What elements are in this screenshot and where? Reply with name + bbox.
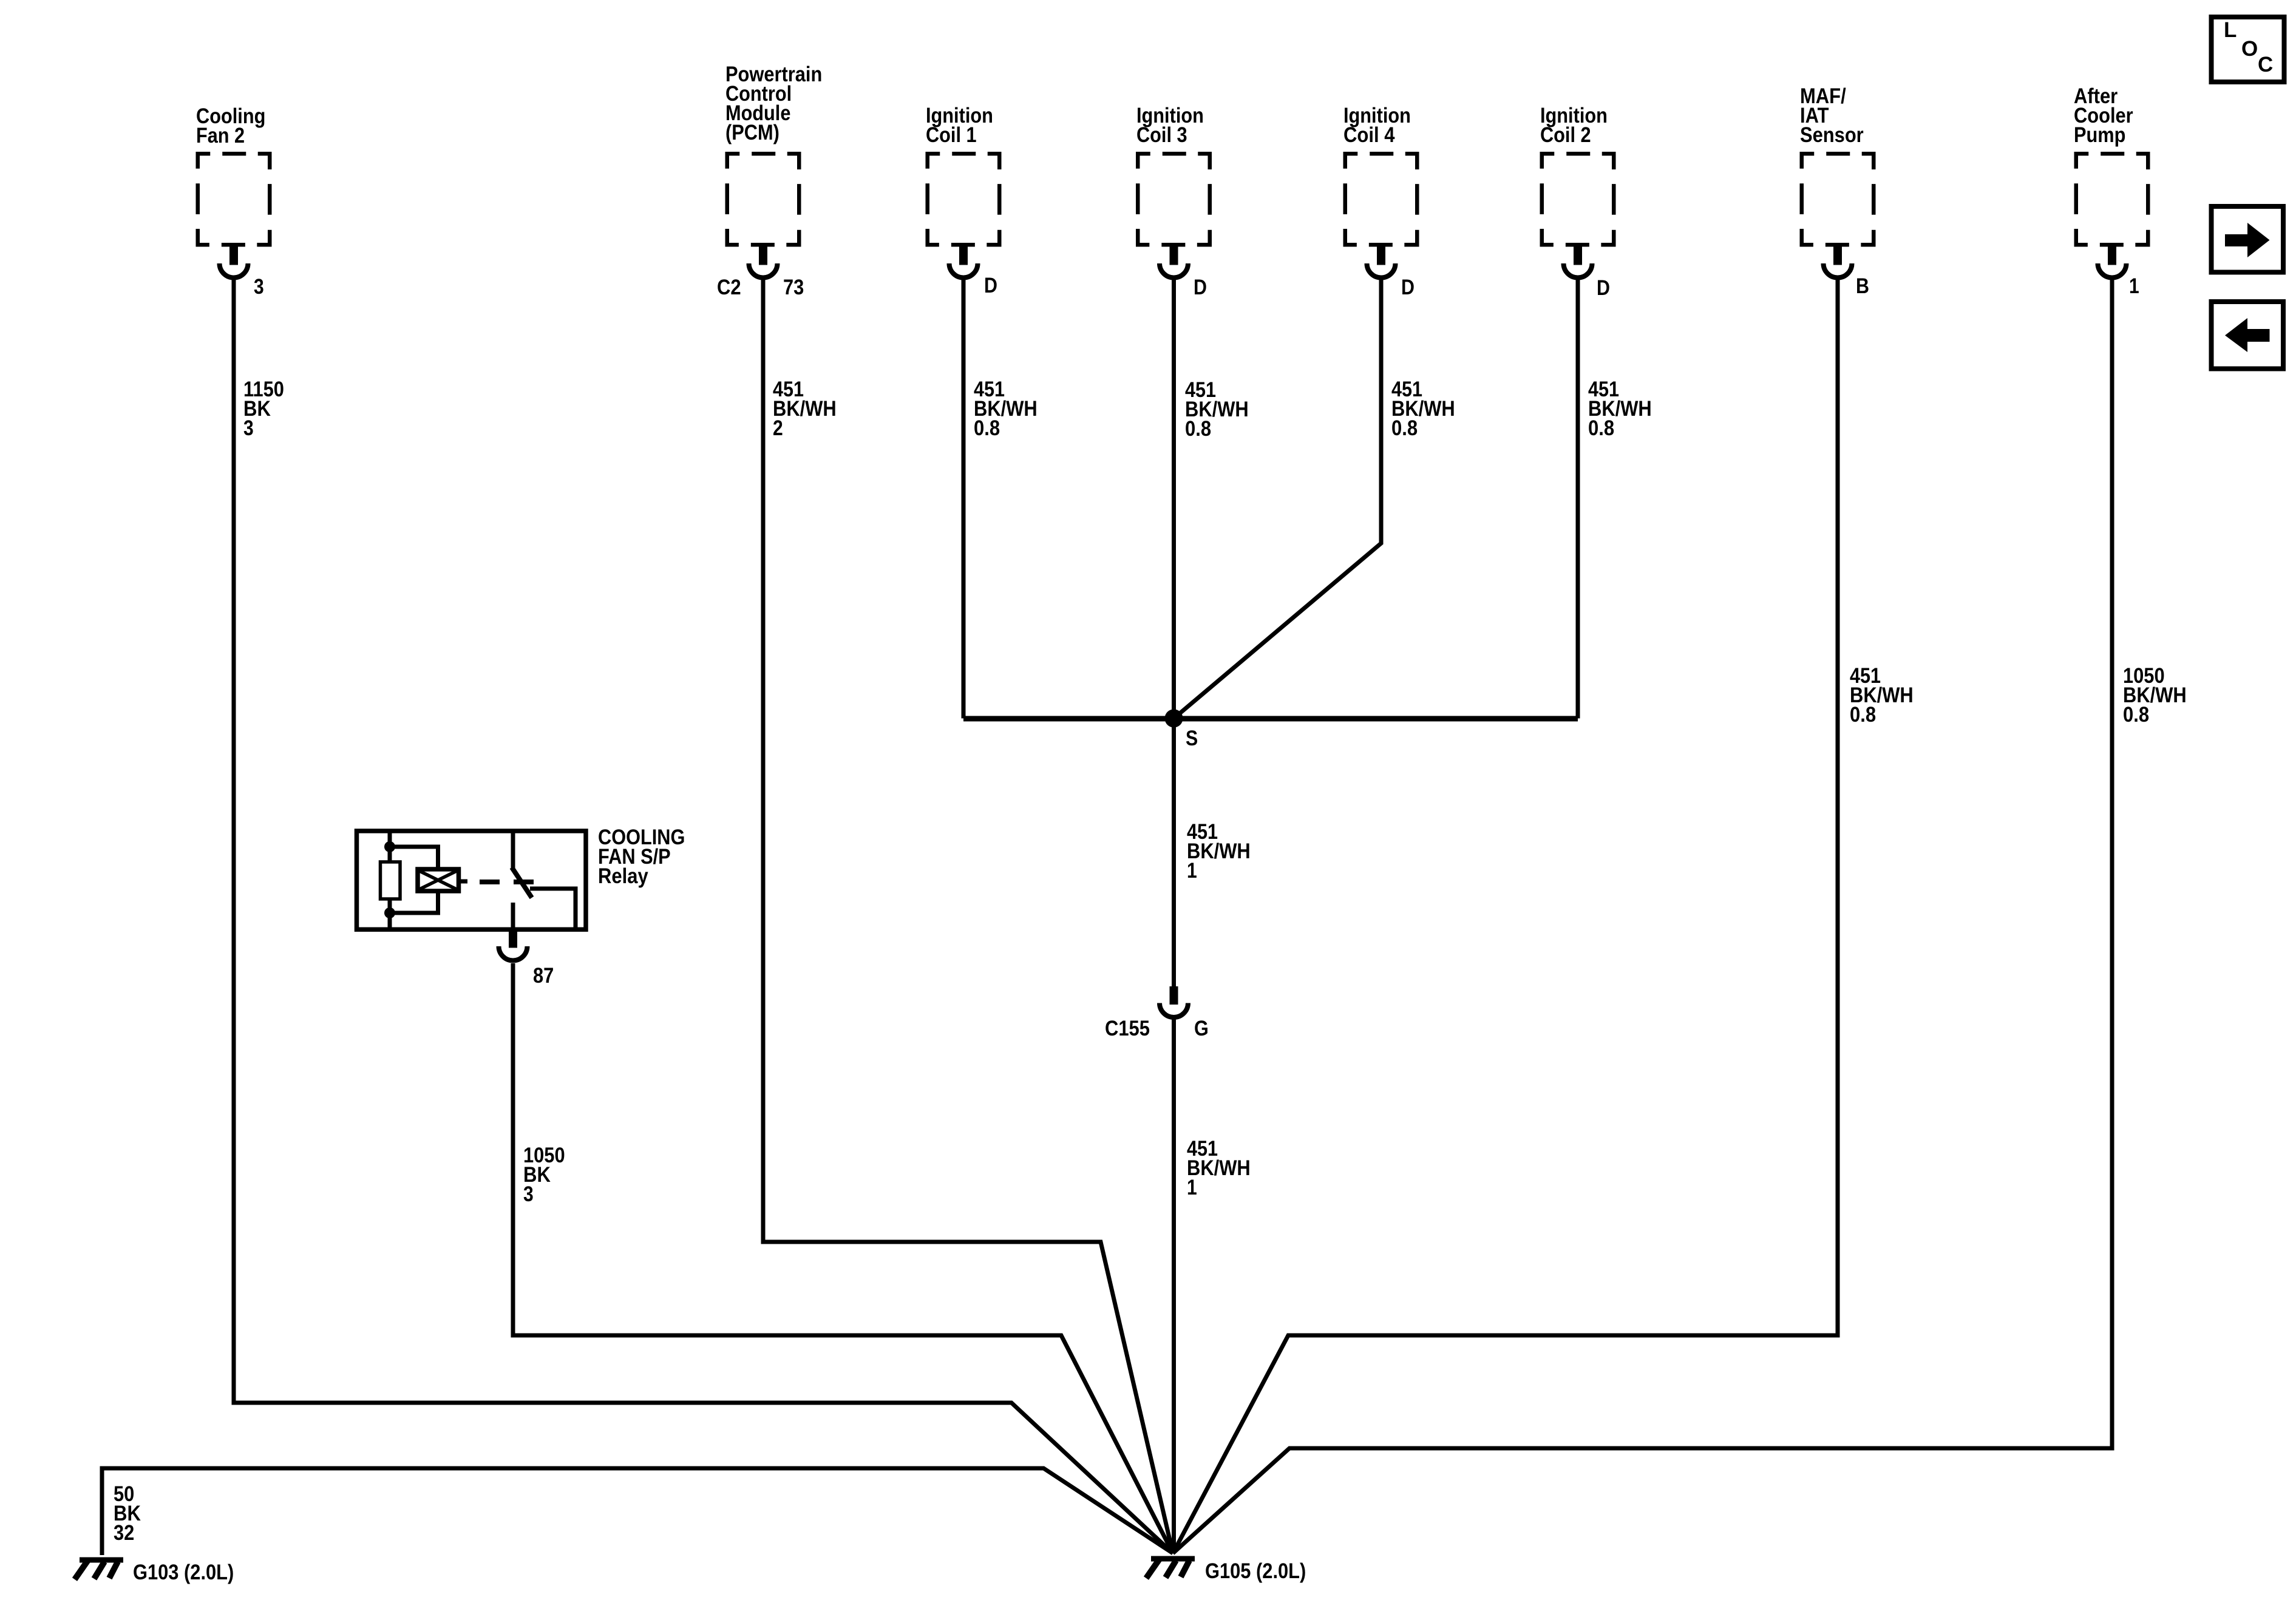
relay switch common stub: [511, 831, 515, 869]
relay pin 87 stub inside box: [511, 903, 515, 929]
component After Cooler Pump label: [2074, 84, 2133, 147]
ground G103 symbol: [75, 1559, 123, 1579]
pin B of MAF/IAT Sensor: [1856, 274, 1869, 298]
svg-text:0.8: 0.8: [974, 416, 1000, 440]
pin D of Ignition Coil 1: [984, 274, 997, 297]
component Powertrain Control Module (PCM) label: [725, 63, 822, 144]
right arrow navigation box: [2212, 206, 2284, 273]
component After Cooler Pump box: [2076, 154, 2148, 277]
svg-text:C155: C155: [1105, 1017, 1150, 1040]
svg-text:0.8: 0.8: [1185, 417, 1211, 441]
relay junction dot bottom: [384, 907, 395, 918]
label wire 451 BK/WH 2: [773, 378, 837, 440]
svg-text:1: 1: [1187, 1176, 1197, 1199]
wire 50 BK from G103 to G105: [102, 1468, 1173, 1555]
wire 451 BK/WH from Ignition Coil 4 to node S: [1174, 279, 1382, 719]
svg-text:0.8: 0.8: [1588, 416, 1614, 440]
label wire 451 BK/WH 0.8 MAF: [1850, 664, 1914, 727]
svg-text:73: 73: [783, 276, 804, 299]
pin D of Ignition Coil 3: [1194, 276, 1207, 299]
relay switch contact wire to bottom: [530, 889, 576, 929]
relay coil box with X: [418, 869, 459, 891]
svg-text:D: D: [1194, 276, 1207, 299]
component Ignition Coil 3 label: [1136, 104, 1204, 147]
svg-text:0.8: 0.8: [2123, 703, 2149, 727]
wire 1050 BK/WH from After Cooler Pump to G105: [1173, 279, 2112, 1553]
svg-text:Coil 3: Coil 3: [1136, 123, 1187, 147]
component Cooling Fan 2 label: [196, 104, 265, 147]
svg-text:1: 1: [1187, 859, 1197, 883]
wire splice bus between ignition coils: [963, 716, 1578, 722]
label wire 451 BK/WH 0.8 coil 3: [1185, 378, 1249, 441]
svg-text:3: 3: [523, 1182, 534, 1206]
svg-text:G105 (2.0L): G105 (2.0L): [1205, 1559, 1306, 1583]
pin 1 of After Cooler Pump: [2129, 274, 2139, 298]
svg-text:Coil 4: Coil 4: [1343, 123, 1395, 147]
component Ignition Coil 3 box: [1138, 154, 1210, 277]
wire 1050 BK from relay to G105: [513, 963, 1173, 1553]
component Ignition Coil 4 box: [1345, 154, 1418, 277]
svg-text:G103 (2.0L): G103 (2.0L): [133, 1561, 234, 1584]
relay switch blade: [512, 867, 532, 898]
svg-text:C2: C2: [717, 276, 741, 299]
component Ignition Coil 2 box: [1542, 154, 1614, 277]
pin 3 of Cooling Fan 2: [254, 275, 264, 299]
wire 451 BK/WH from PCM to G105: [763, 279, 1173, 1553]
label wire 451 BK/WH 1 above C155: [1187, 820, 1251, 883]
resistor inside relay: [381, 862, 401, 899]
svg-text:0.8: 0.8: [1391, 416, 1418, 440]
svg-text:(PCM): (PCM): [725, 121, 779, 144]
svg-text:Coil 1: Coil 1: [926, 123, 977, 147]
svg-text:Sensor: Sensor: [1800, 123, 1864, 147]
svg-text:3: 3: [254, 275, 264, 299]
component MAF/IAT Sensor box: [1802, 154, 1874, 277]
svg-text:32: 32: [114, 1521, 134, 1545]
svg-text:S: S: [1186, 727, 1198, 750]
svg-text:L: L: [2224, 18, 2237, 42]
label wire 451 BK/WH 0.8 coil 2: [1588, 378, 1652, 440]
svg-text:O: O: [2241, 37, 2258, 61]
wire 451 BK/WH from Ignition Coil 3 to C155: [1172, 279, 1176, 986]
component MAF/IAT Sensor label: [1800, 84, 1864, 147]
relay label COOLING FAN S/P Relay: [598, 825, 685, 888]
connector C155 name: [1105, 1017, 1150, 1040]
pin 73 of PCM: [783, 276, 804, 299]
svg-text:D: D: [1401, 276, 1415, 299]
component Ignition Coil 1 label: [926, 104, 993, 147]
pin C2 of PCM: [717, 276, 741, 299]
relay internal wire left vertical: [388, 831, 392, 862]
relay wire from bottom dot to coil: [390, 891, 438, 913]
relay COOLING FAN S/P outer box: [357, 831, 586, 929]
svg-text:3: 3: [243, 416, 254, 440]
relay internal wire below resistor: [388, 899, 392, 929]
component Ignition Coil 2 label: [1540, 104, 1608, 147]
svg-text:D: D: [984, 274, 997, 297]
relay pin 87 connector: [499, 930, 528, 961]
svg-text:G: G: [1194, 1017, 1209, 1040]
label wire 50 BK 32: [114, 1482, 141, 1545]
label wire 451 BK/WH 0.8 coil 1: [974, 378, 1038, 440]
node S label: [1186, 727, 1198, 750]
svg-text:1: 1: [2129, 274, 2139, 298]
ground G103 label: [133, 1561, 234, 1584]
pin G of C155: [1194, 1017, 1209, 1040]
LOC legend box: [2212, 17, 2284, 82]
svg-text:C: C: [2258, 53, 2273, 76]
connector C155 symbol: [1160, 986, 1188, 1017]
wire 451 BK/WH from Ignition Coil 2 to node S bus: [1576, 279, 1580, 719]
label wire 1150 BK 3: [243, 378, 284, 440]
wire 451 BK/WH from Ignition Coil 1 to node S bus: [962, 279, 966, 719]
node S junction dot: [1165, 710, 1183, 728]
ground G105 symbol: [1146, 1558, 1195, 1578]
ground G105 label: [1205, 1559, 1306, 1583]
wire 1150 BK from Cooling Fan 2 to G105: [234, 279, 1173, 1553]
svg-text:D: D: [1597, 276, 1610, 300]
svg-text:87: 87: [533, 964, 554, 988]
label wire 451 BK/WH 0.8 coil 4: [1391, 378, 1455, 440]
wire 451 BK/WH from MAF/IAT Sensor to G105: [1173, 279, 1838, 1553]
component PCM box: [727, 154, 800, 277]
left arrow navigation box: [2212, 302, 2284, 369]
label wire 1050 BK 3: [523, 1144, 565, 1206]
label wire 451 BK/WH 1 below C155: [1187, 1137, 1251, 1199]
relay coil right stub: [459, 880, 468, 884]
svg-text:Fan 2: Fan 2: [196, 124, 245, 147]
pin 87 label: [533, 964, 554, 988]
svg-text:Pump: Pump: [2074, 123, 2125, 147]
relay junction dot top: [384, 841, 395, 852]
label wire 1050 BK/WH 0.8: [2123, 664, 2187, 727]
pin D of Ignition Coil 4: [1401, 276, 1415, 299]
svg-text:Coil 2: Coil 2: [1540, 123, 1591, 147]
svg-text:B: B: [1856, 274, 1869, 298]
component Cooling Fan 2 box: [198, 154, 270, 277]
wire 451 BK/WH from C155 to G105: [1172, 1019, 1176, 1553]
svg-text:0.8: 0.8: [1850, 703, 1876, 727]
component Ignition Coil 4 label: [1343, 104, 1411, 147]
svg-text:Relay: Relay: [598, 864, 648, 888]
relay actuation dashed link: [480, 880, 534, 884]
component Ignition Coil 1 box: [928, 154, 1000, 277]
svg-text:2: 2: [773, 416, 783, 440]
pin D of Ignition Coil 2: [1597, 276, 1610, 300]
relay wire from top dot to coil: [390, 847, 438, 869]
